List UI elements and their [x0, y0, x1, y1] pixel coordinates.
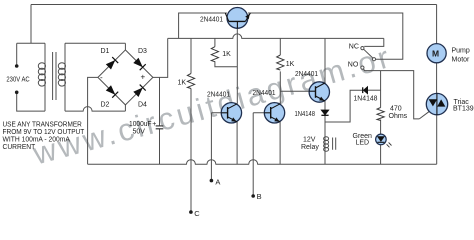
diode D1	[106, 57, 118, 69]
LED green indicator	[376, 134, 392, 147]
wire probe B lead from Q3 base	[253, 113, 264, 196]
transistor Q3 2N4401	[264, 103, 284, 123]
wire Q3 emitter to ground	[279, 122, 281, 164]
svg-text:+: +	[152, 121, 156, 128]
wire NC hook	[364, 38, 384, 46]
resistor R4 470 Ohms	[377, 108, 384, 121]
diode D4	[134, 85, 146, 97]
relay switch NC/NO contacts	[361, 47, 376, 71]
wire Q4 collector to +12V rail	[324, 38, 326, 83]
wire secondary top to bridge AC top	[65, 42, 125, 44]
svg-text:230V AC: 230V AC	[6, 77, 29, 84]
wire 230V AC left terminal lead	[16, 43, 18, 66]
svg-text:1N4148: 1N4148	[295, 111, 316, 118]
transistor Q2 2N4401	[221, 103, 241, 123]
diode D2	[106, 86, 118, 98]
wire motor top lead	[436, 5, 438, 45]
wire D6 anode to LED branch	[368, 89, 381, 91]
core	[53, 52, 56, 100]
secondary winding	[64, 43, 66, 111]
svg-text:BT139: BT139	[453, 106, 474, 113]
pump motor M1	[427, 44, 446, 63]
wire relay coil bottom to ground	[324, 151, 326, 164]
bridge rectifier diamond	[98, 43, 153, 111]
wire bridge plus output to rail	[153, 38, 168, 77]
capacitor C1 1000uF	[156, 126, 164, 129]
wire top mains rail	[31, 4, 437, 6]
wire R3 top lead	[279, 38, 281, 55]
wire Q1 emitter to relay pole	[248, 13, 403, 59]
svg-text:-: -	[100, 73, 103, 82]
transistor Q1 2N4401 (rotated, emitter to relay)	[225, 8, 250, 29]
node 230V AC terminals	[15, 64, 19, 68]
relay K1 coil	[324, 137, 336, 152]
svg-text:470: 470	[390, 106, 402, 113]
svg-text:LED: LED	[356, 139, 370, 146]
resistor R1 1K	[187, 74, 194, 89]
svg-text:CURRENT: CURRENT	[3, 142, 36, 151]
wire secondary bottom to bridge AC bottom (hop over minus wire)	[65, 107, 125, 112]
svg-text:D1: D1	[101, 48, 110, 55]
svg-text:A: A	[215, 178, 220, 187]
svg-text:D2: D2	[101, 101, 110, 108]
svg-text:50V: 50V	[133, 128, 146, 135]
wire motor to triac	[436, 63, 438, 94]
svg-text:2N4401: 2N4401	[207, 92, 230, 99]
wire ground rail (hops over probe wires C, A, B)	[88, 160, 437, 165]
svg-text:2N4401: 2N4401	[295, 71, 318, 78]
svg-text:Pump: Pump	[452, 48, 470, 55]
svg-text:NC: NC	[349, 43, 359, 50]
wire LED branch vertical	[380, 71, 382, 165]
svg-text:D4: D4	[138, 101, 147, 108]
wire R2 bottom bend to Q1 base node	[215, 61, 237, 67]
primary winding	[44, 43, 46, 111]
svg-text:1000uF: 1000uF	[129, 121, 152, 128]
svg-text:+: +	[141, 73, 146, 82]
svg-text:2N4401: 2N4401	[253, 90, 276, 97]
wire Q1 base down to Q2 collector	[236, 28, 238, 104]
transistor Q4 2N4401 (relay driver)	[309, 82, 329, 102]
diode D5 1N4148 (series with relay coil)	[321, 110, 329, 115]
wire transformer primary bottom link	[17, 92, 45, 111]
svg-text:C: C	[194, 209, 200, 218]
svg-text:D3: D3	[138, 48, 147, 55]
svg-text:Motor: Motor	[452, 56, 471, 63]
node probe A	[210, 179, 214, 183]
svg-text:B: B	[257, 192, 262, 201]
wire Q4 base from R3/Q3 node	[280, 90, 309, 92]
svg-text:1N4148: 1N4148	[354, 95, 378, 102]
wire D5 cathode to relay coil top	[324, 115, 326, 136]
transformer T1	[38, 43, 65, 111]
wire 230V top lead	[30, 5, 32, 44]
wire R2 top lead	[214, 38, 216, 46]
svg-text:1K: 1K	[178, 80, 187, 87]
wire transformer primary top link	[17, 42, 45, 44]
diode D3	[134, 58, 146, 70]
wire capacitor leads	[159, 77, 161, 164]
wire Q4 emitter to diode D5	[324, 101, 326, 110]
svg-text:1K: 1K	[286, 61, 295, 68]
svg-text:1K: 1K	[222, 51, 231, 58]
svg-text:M: M	[432, 48, 439, 58]
svg-text:NO: NO	[348, 61, 359, 68]
triac TR1 BT139	[426, 93, 447, 114]
svg-text:2N4401: 2N4401	[200, 16, 223, 23]
resistor R2 1K	[211, 47, 218, 62]
wire Q2 emitter to ground	[236, 122, 238, 164]
wire Q1 collector to +12V rail	[179, 13, 227, 38]
wire probe C lead	[190, 89, 192, 213]
wire R3 bottom to Q3 collector	[279, 71, 281, 103]
svg-text:Relay: Relay	[301, 144, 319, 151]
wire R1 top lead	[190, 38, 192, 73]
node probe B	[251, 194, 255, 198]
svg-text:Ohms: Ohms	[389, 113, 408, 120]
resistor R3 1K	[277, 55, 284, 70]
wire probe A lead from Q2 base	[211, 113, 221, 181]
wire +12V rail (with hop over Q1 base)	[168, 34, 384, 39]
wire triac gate diagonal	[419, 111, 429, 119]
wire triac bottom to ground rail	[436, 115, 438, 164]
wire bridge minus down to ground rail	[88, 77, 98, 164]
diode D6 1N4148 (flyback)	[363, 86, 368, 94]
wire NO contact to triac gate branch	[364, 71, 419, 119]
wire flyback branch relay node to D6	[325, 90, 362, 122]
svg-text:12V: 12V	[303, 136, 316, 143]
node probe C	[189, 210, 193, 214]
